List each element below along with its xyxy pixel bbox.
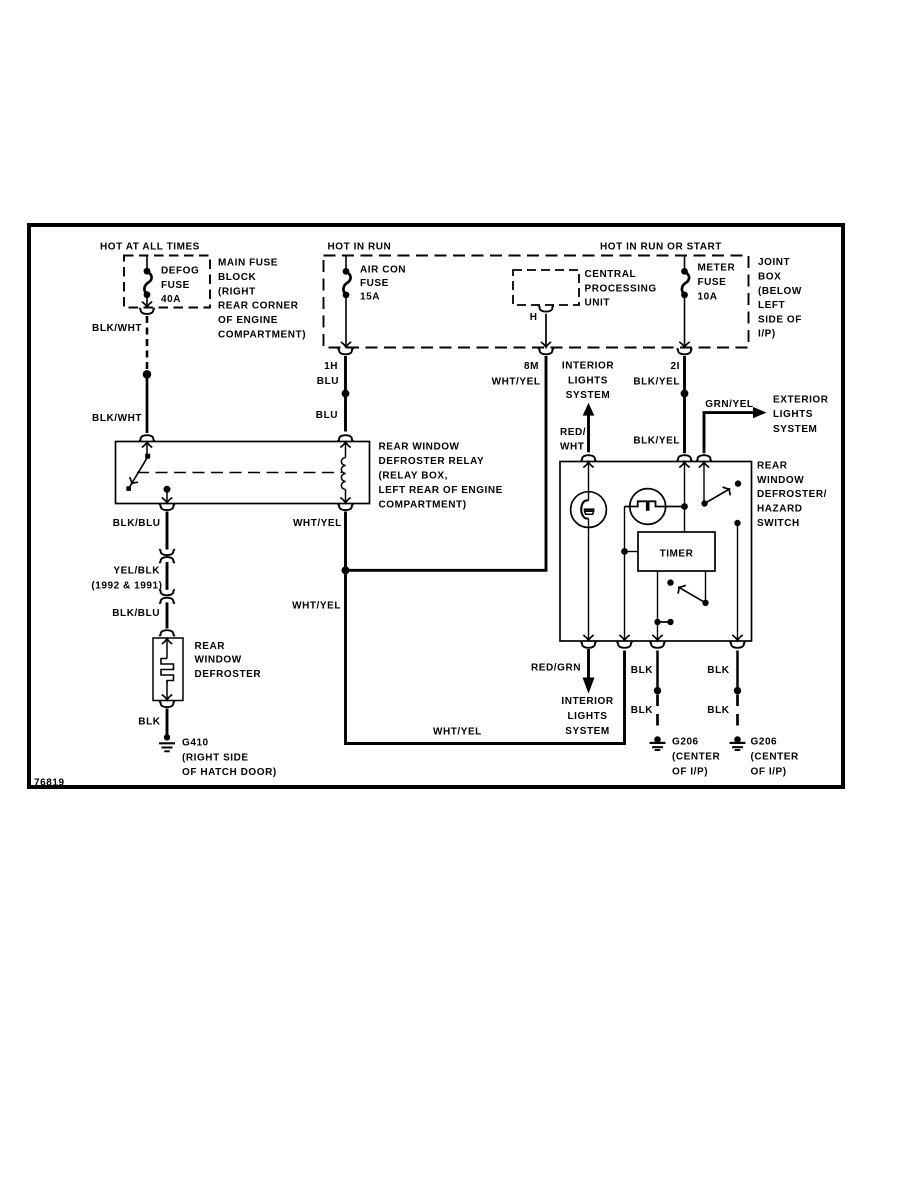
svg-text:YEL/BLK: YEL/BLK bbox=[113, 565, 160, 576]
right branch stem bbox=[737, 523, 739, 641]
svg-text:EXTERIOR: EXTERIOR bbox=[773, 394, 829, 405]
svg-text:BLU: BLU bbox=[316, 410, 338, 421]
defrost switch pivot node bbox=[701, 500, 707, 506]
svg-text:BLK: BLK bbox=[631, 705, 653, 716]
svg-text:BLK/BLU: BLK/BLU bbox=[112, 608, 160, 619]
svg-text:TIMER: TIMER bbox=[660, 548, 694, 559]
label AIR CON FUSE 15A bbox=[360, 264, 406, 302]
svg-text:BLK: BLK bbox=[631, 665, 653, 676]
relay contact arm arrowhead bbox=[130, 477, 139, 484]
relay internal dashed link bbox=[137, 472, 342, 474]
svg-text:(1992 & 1991): (1992 & 1991) bbox=[91, 581, 162, 592]
svg-text:76819: 76819 bbox=[34, 777, 65, 788]
svg-text:(RIGHT: (RIGHT bbox=[218, 286, 256, 297]
lamp1 filament bbox=[581, 501, 588, 519]
lamp2 filament tick bbox=[646, 502, 650, 511]
svg-text:OF HATCH DOOR): OF HATCH DOOR) bbox=[182, 767, 277, 778]
defroster lead top bbox=[166, 640, 168, 659]
defrost switch arm bbox=[705, 489, 730, 504]
indicator lamp 1 bbox=[571, 492, 607, 528]
switch pin arrow in RED/WHT bbox=[583, 462, 593, 467]
timer feed lead bbox=[657, 622, 659, 641]
svg-text:COMPARTMENT): COMPARTMENT) bbox=[379, 499, 467, 510]
svg-text:WHT/YEL: WHT/YEL bbox=[492, 376, 541, 387]
svg-text:40A: 40A bbox=[161, 294, 181, 305]
WHT/YEL feed stem bbox=[624, 507, 626, 641]
label CENTRAL PROCESSING UNIT bbox=[585, 269, 657, 309]
defroster pin arrow in bbox=[162, 639, 172, 644]
svg-text:BLK/WHT: BLK/WHT bbox=[92, 413, 142, 424]
wire fuse lead bottom bbox=[146, 297, 148, 307]
svg-text:SYSTEM: SYSTEM bbox=[565, 726, 609, 737]
wire BLK left upper bbox=[656, 651, 659, 688]
svg-text:DEFOG: DEFOG bbox=[161, 265, 199, 276]
svg-text:GRN/YEL: GRN/YEL bbox=[705, 399, 753, 410]
connector above switch BLK/YEL bbox=[677, 455, 692, 461]
connector 1H below joint box bbox=[338, 348, 353, 354]
ground G206 right bbox=[730, 736, 746, 750]
label G410 (RIGHT SIDE OF HATCH DOOR) bbox=[182, 737, 277, 778]
relay coil pin arrow in bbox=[340, 442, 350, 447]
svg-text:FUSE: FUSE bbox=[360, 278, 389, 289]
connector below relay left bbox=[159, 504, 174, 510]
ground G410 bbox=[159, 734, 175, 751]
joint box dashed rectangle bbox=[324, 256, 749, 348]
svg-text:WINDOW: WINDOW bbox=[195, 655, 242, 666]
diagram border frame bbox=[29, 225, 843, 787]
wire BLK right upper bbox=[736, 651, 739, 688]
svg-text:G410: G410 bbox=[182, 737, 209, 748]
label DEFOG FUSE 40A bbox=[161, 265, 199, 305]
svg-text:H: H bbox=[530, 312, 538, 323]
svg-text:SYSTEM: SYSTEM bbox=[773, 424, 817, 435]
wire WHT/YEL from 8M down and left bbox=[346, 356, 546, 570]
defrost switch fixed contact node bbox=[735, 480, 741, 486]
right branch node bbox=[734, 520, 740, 526]
svg-text:REAR WINDOW: REAR WINDOW bbox=[379, 441, 460, 452]
svg-text:BLK/YEL: BLK/YEL bbox=[633, 376, 680, 387]
timer switch lead bbox=[705, 571, 707, 601]
svg-text:LIGHTS: LIGHTS bbox=[773, 409, 813, 420]
pin arrow 2I out of joint box bbox=[679, 342, 689, 347]
svg-text:DEFROSTER: DEFROSTER bbox=[195, 669, 262, 680]
svg-text:WHT: WHT bbox=[560, 442, 584, 453]
svg-text:OF I/P): OF I/P) bbox=[672, 767, 708, 778]
switch pin arrow out WHT/YEL bbox=[619, 635, 629, 640]
defroster pin arrow out bbox=[162, 695, 172, 700]
svg-text:HOT IN RUN OR START: HOT IN RUN OR START bbox=[600, 242, 722, 253]
connector below switch BLK right bbox=[730, 642, 745, 648]
label G206 (CENTER OF I/P) left bbox=[672, 737, 721, 778]
lamp1 lead top bbox=[588, 463, 590, 501]
node junction lamp2/BLK YEL bbox=[681, 503, 688, 510]
node junction BLK right bbox=[734, 687, 741, 694]
wire YEL/BLK section bbox=[166, 562, 169, 590]
svg-text:(RIGHT SIDE: (RIGHT SIDE bbox=[182, 752, 249, 763]
node junction WHT/YEL bbox=[342, 566, 350, 574]
wire RED/WHT bbox=[587, 415, 590, 452]
relay coil lead bottom bbox=[345, 490, 347, 504]
label INTERIOR LIGHTS SYSTEM bottom bbox=[561, 696, 613, 737]
svg-text:UNIT: UNIT bbox=[585, 298, 611, 309]
svg-text:OF I/P): OF I/P) bbox=[751, 767, 787, 778]
timer contact node left bbox=[654, 619, 660, 625]
timer switch fixed node bbox=[667, 579, 673, 585]
timer output lead left bbox=[657, 571, 659, 620]
wire meter fuse lead bottom bbox=[684, 297, 686, 347]
wire BLK left dashed bbox=[656, 695, 659, 732]
label MAIN FUSE BLOCK (RIGHT REAR CORNER OF ENGINE COMPARTMENT) bbox=[218, 257, 306, 340]
arrow to exterior lights system bbox=[753, 407, 767, 418]
svg-text:SYSTEM: SYSTEM bbox=[566, 390, 610, 401]
svg-text:RED/: RED/ bbox=[560, 427, 586, 438]
timer switch arm arrowhead bbox=[678, 585, 686, 593]
svg-text:METER: METER bbox=[698, 262, 736, 273]
svg-text:BLK: BLK bbox=[707, 665, 729, 676]
svg-text:REAR: REAR bbox=[757, 460, 788, 471]
connector 2I below joint box bbox=[677, 348, 692, 354]
relay box REAR WINDOW DEFROSTER RELAY bbox=[116, 442, 370, 504]
svg-text:SWITCH: SWITCH bbox=[757, 518, 800, 529]
svg-text:10A: 10A bbox=[698, 291, 718, 302]
lamp1 lead bottom bbox=[588, 519, 590, 641]
timer contact bar bbox=[658, 621, 671, 623]
svg-text:1H: 1H bbox=[324, 361, 338, 372]
svg-text:(CENTER: (CENTER bbox=[672, 752, 721, 763]
wire BLK/BLU upper bbox=[166, 512, 169, 550]
relay coil winding bbox=[341, 458, 345, 490]
wire GRN/YEL bbox=[704, 413, 754, 454]
svg-text:HOT AT ALL TIMES: HOT AT ALL TIMES bbox=[100, 242, 200, 253]
label REAR WINDOW DEFROSTER/ HAZARD SWITCH bbox=[757, 460, 827, 529]
svg-text:OF ENGINE: OF ENGINE bbox=[218, 315, 278, 326]
svg-text:CENTRAL: CENTRAL bbox=[585, 269, 637, 280]
wire BLK/WHT dashed bbox=[146, 316, 149, 370]
switch pin arrow in BLK/YEL bbox=[679, 462, 689, 467]
svg-text:HAZARD: HAZARD bbox=[757, 504, 803, 515]
arrow to interior lights (RED/WHT) bbox=[583, 403, 595, 416]
svg-text:BLK: BLK bbox=[707, 705, 729, 716]
svg-text:BLOCK: BLOCK bbox=[218, 272, 257, 283]
svg-text:WHT/YEL: WHT/YEL bbox=[433, 726, 482, 737]
svg-text:INTERIOR: INTERIOR bbox=[561, 696, 613, 707]
relay contact pivot square bbox=[145, 454, 150, 459]
wire fuse lead top bbox=[146, 256, 148, 269]
svg-text:SIDE OF: SIDE OF bbox=[758, 314, 802, 325]
wire BLK right dashed bbox=[736, 695, 739, 732]
svg-text:2I: 2I bbox=[671, 361, 680, 372]
svg-text:LIGHTS: LIGHTS bbox=[568, 375, 608, 386]
connector below defroster bbox=[159, 701, 174, 707]
connector above switch RED/WHT bbox=[581, 455, 596, 461]
switch pin arrow out BLK right bbox=[732, 635, 742, 640]
svg-text:BOX: BOX bbox=[758, 271, 781, 282]
wire to TIMER left bbox=[625, 551, 639, 553]
svg-text:G206: G206 bbox=[672, 737, 699, 748]
fuse DEFOG FUSE 40A bbox=[144, 268, 152, 298]
label G206 (CENTER OF I/P) right bbox=[751, 737, 800, 778]
label JOINT BOX (BELOW LEFT SIDE OF I/P) bbox=[758, 257, 802, 340]
lamp2 lead left bbox=[625, 501, 685, 506]
svg-text:8M: 8M bbox=[524, 361, 539, 372]
node junction BLK left bbox=[654, 687, 661, 694]
indicator lamp 2 bbox=[630, 489, 666, 525]
svg-text:INTERIOR: INTERIOR bbox=[562, 361, 614, 372]
svg-text:LEFT REAR OF ENGINE: LEFT REAR OF ENGINE bbox=[379, 485, 503, 496]
connector below switch BLK left bbox=[650, 642, 665, 648]
svg-text:REAR: REAR bbox=[195, 641, 226, 652]
relay output pin arrow bbox=[162, 498, 172, 503]
wire BLK to G410 bbox=[166, 709, 169, 735]
svg-text:RED/GRN: RED/GRN bbox=[531, 662, 581, 673]
svg-text:WHT/YEL: WHT/YEL bbox=[292, 600, 341, 611]
svg-text:LIGHTS: LIGHTS bbox=[568, 711, 608, 722]
relay contact pin arrow in bbox=[142, 442, 152, 447]
node junction BLU bbox=[342, 390, 350, 398]
defroster heater element bbox=[161, 659, 174, 684]
svg-text:BLK/WHT: BLK/WHT bbox=[92, 323, 142, 334]
wire BLU bbox=[344, 356, 347, 432]
arrow to interior lights system bottom bbox=[583, 678, 595, 694]
inline connector pair 1 bbox=[159, 549, 174, 555]
svg-text:WHT/YEL: WHT/YEL bbox=[293, 518, 342, 529]
ground G206 left bbox=[650, 736, 666, 750]
connector 8M below joint box bbox=[538, 348, 553, 354]
relay output stem bbox=[166, 489, 168, 503]
connector below fuse block bbox=[139, 308, 154, 314]
wire BLK/BLU lower bbox=[166, 602, 169, 628]
relay contact stem bbox=[146, 443, 148, 455]
pin arrow 1H out of joint box bbox=[341, 342, 351, 347]
connector above defroster bbox=[159, 630, 174, 636]
svg-text:MAIN FUSE: MAIN FUSE bbox=[218, 257, 278, 268]
wire air con fuse lead top bbox=[345, 256, 347, 270]
connector above relay (right) bbox=[338, 435, 353, 441]
timer switch pivot node bbox=[702, 600, 708, 606]
CPU dashed box bbox=[513, 270, 579, 305]
label INTERIOR LIGHTS SYSTEM top bbox=[562, 361, 614, 401]
wire meter fuse lead top bbox=[684, 256, 686, 270]
svg-text:(BELOW: (BELOW bbox=[758, 286, 802, 297]
wire BLK/WHT solid bbox=[146, 378, 149, 433]
wire WHT/YEL relay to switch bbox=[346, 512, 625, 744]
svg-text:BLK: BLK bbox=[138, 717, 160, 728]
wire BLK/YEL bbox=[683, 356, 686, 453]
svg-text:I/P): I/P) bbox=[758, 329, 776, 340]
svg-text:BLK/YEL: BLK/YEL bbox=[633, 436, 680, 447]
relay coil lead top bbox=[345, 443, 347, 458]
svg-text:BLK/BLU: BLK/BLU bbox=[113, 518, 161, 529]
svg-text:PROCESSING: PROCESSING bbox=[585, 283, 657, 294]
svg-text:DEFROSTER/: DEFROSTER/ bbox=[757, 489, 827, 500]
node junction at timer feed bbox=[621, 548, 628, 555]
svg-text:LEFT: LEFT bbox=[758, 300, 785, 311]
svg-text:DEFROSTER RELAY: DEFROSTER RELAY bbox=[379, 456, 485, 467]
switch box REAR WINDOW DEFROSTER/HAZARD SWITCH bbox=[560, 462, 752, 642]
TIMER box bbox=[638, 532, 715, 571]
defrost switch arm arrowhead bbox=[723, 487, 731, 495]
fuse METER FUSE 10A bbox=[681, 268, 689, 298]
switch pin arrow out RED/GRN bbox=[583, 635, 593, 640]
label METER FUSE 10A bbox=[698, 262, 736, 302]
svg-text:FUSE: FUSE bbox=[698, 277, 727, 288]
relay output contact node bbox=[164, 486, 171, 493]
svg-text:WINDOW: WINDOW bbox=[757, 475, 804, 486]
svg-text:HOT IN RUN: HOT IN RUN bbox=[328, 242, 392, 253]
svg-text:REAR CORNER: REAR CORNER bbox=[218, 301, 299, 312]
connector above switch GRN/YEL bbox=[696, 455, 711, 461]
connector below relay right bbox=[338, 504, 353, 510]
label EXTERIOR LIGHTS SYSTEM bbox=[773, 394, 829, 434]
inline connector pair 2 bbox=[159, 589, 174, 595]
label REAR WINDOW DEFROSTER bbox=[195, 641, 262, 680]
main fuse block box bbox=[124, 256, 210, 308]
label REAR WINDOW DEFROSTER RELAY (RELAY BOX, LEFT REAR OF ENGINE COMPARTMENT) bbox=[379, 441, 503, 510]
relay coil pin arrow out bbox=[340, 498, 350, 503]
connector below switch WHT/YEL bbox=[617, 642, 632, 648]
pin arrow 8M out of joint box bbox=[541, 342, 551, 347]
pin arrow out of fuse block bbox=[142, 302, 152, 307]
wire CPU output bbox=[545, 314, 547, 347]
svg-text:G206: G206 bbox=[751, 737, 778, 748]
svg-text:(RELAY BOX,: (RELAY BOX, bbox=[379, 470, 448, 481]
node junction BLK/WHT bbox=[143, 370, 152, 379]
svg-text:(CENTER: (CENTER bbox=[751, 752, 800, 763]
connector below switch RED/GRN bbox=[581, 642, 596, 648]
relay fixed contact square bbox=[126, 486, 131, 491]
svg-text:15A: 15A bbox=[360, 291, 380, 302]
switch pin arrow in GRN/YEL bbox=[699, 462, 709, 467]
label RED/ WHT bbox=[560, 427, 586, 453]
relay contact arm bbox=[129, 458, 147, 488]
connector above relay (left) bbox=[139, 435, 154, 441]
svg-text:JOINT: JOINT bbox=[758, 257, 790, 268]
BLK/YEL stem to timer bbox=[684, 463, 686, 532]
wire air con fuse lead bottom bbox=[345, 297, 347, 347]
svg-text:FUSE: FUSE bbox=[161, 280, 190, 291]
svg-text:BLU: BLU bbox=[317, 376, 339, 387]
wire RED/GRN stem bbox=[587, 649, 590, 679]
GRN/YEL stem bbox=[703, 463, 705, 502]
rear window defroster box bbox=[153, 638, 183, 701]
timer contact node right bbox=[667, 619, 673, 625]
fuse AIR CON FUSE 15A bbox=[343, 268, 351, 298]
defroster lead bottom bbox=[166, 683, 168, 700]
node junction BLK/YEL bbox=[681, 390, 689, 398]
switch pin arrow out BLK left bbox=[652, 635, 662, 640]
svg-text:AIR CON: AIR CON bbox=[360, 264, 406, 275]
timer switch arm bbox=[679, 587, 706, 603]
svg-text:COMPARTMENT): COMPARTMENT) bbox=[218, 330, 306, 341]
connector below CPU bbox=[538, 306, 553, 312]
